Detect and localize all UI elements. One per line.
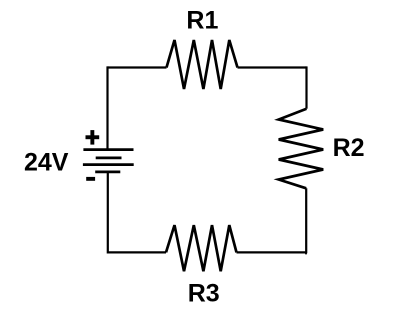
wire top-left horizontal xyxy=(108,66,167,68)
label + (battery positive) xyxy=(86,130,100,145)
resistor R1 xyxy=(167,40,238,89)
battery plate short upper (-) xyxy=(96,157,122,160)
wire bottom-left horizontal xyxy=(108,251,167,253)
wire bottom-right horizontal xyxy=(237,251,307,253)
label - (battery negative) xyxy=(86,177,95,181)
wire left lower vertical xyxy=(107,172,109,254)
svg-text:R3: R3 xyxy=(188,280,220,308)
svg-text:R2: R2 xyxy=(333,134,365,162)
wire top-right horizontal xyxy=(238,66,307,68)
battery plate long lower (+) xyxy=(83,163,134,166)
battery plate long top (+) xyxy=(83,148,133,151)
resistor R3 xyxy=(166,225,237,271)
wire right upper vertical xyxy=(305,66,307,108)
svg-text:24V: 24V xyxy=(24,149,69,177)
battery V1 24V xyxy=(83,150,134,172)
battery plate short bottom (-) xyxy=(95,171,120,174)
wire right lower vertical xyxy=(305,188,308,253)
wire left upper vertical xyxy=(106,66,108,149)
resistor R2 xyxy=(279,109,324,189)
svg-text:R1: R1 xyxy=(186,7,218,35)
